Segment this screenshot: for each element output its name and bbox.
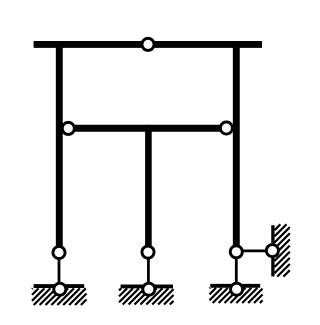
right support vertical pendulum link	[235, 252, 238, 289]
hinge bottom of left column	[53, 246, 65, 258]
hinge bottom of middle column	[142, 246, 154, 258]
hinge right end of middle beam	[220, 122, 232, 134]
left support pendulum link	[58, 252, 61, 289]
middle support ground hatching	[119, 288, 174, 304]
hinge at wall	[266, 245, 278, 257]
top beam	[34, 41, 262, 48]
hinge on top beam	[142, 38, 154, 50]
left support ground hatching	[32, 288, 87, 305]
right column	[233, 41, 240, 252]
hinge at right support base	[231, 283, 243, 295]
left column	[56, 41, 63, 252]
middle support pendulum link	[147, 252, 150, 289]
hinge left end of middle beam	[62, 122, 74, 134]
hinge at left support base	[54, 283, 66, 295]
wall hatching	[275, 224, 290, 276]
left support ground line	[34, 284, 85, 288]
right support ground line	[210, 284, 260, 288]
middle column	[145, 125, 152, 252]
right support ground hatching	[210, 288, 263, 303]
right horizontal pendulum link to wall	[236, 249, 272, 252]
wall line of right wall support	[271, 225, 274, 276]
middle support ground line	[121, 284, 173, 288]
hinge bottom of right column	[230, 246, 242, 258]
hinge at middle support base	[143, 283, 155, 295]
middle beam	[68, 125, 226, 132]
